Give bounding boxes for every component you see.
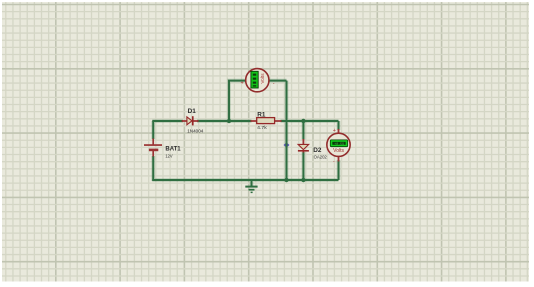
- svg-text:+: +: [241, 81, 244, 87]
- svg-text:R1: R1: [257, 112, 265, 119]
- svg-text:+: +: [333, 128, 336, 134]
- svg-text:12V: 12V: [165, 154, 173, 160]
- svg-text:1N4004: 1N4004: [187, 128, 204, 134]
- svg-text:Volts: Volts: [260, 73, 265, 84]
- svg-text:D2: D2: [313, 147, 321, 154]
- svg-text:+0.59: +0.59: [334, 143, 344, 147]
- svg-text:BAT1: BAT1: [165, 146, 180, 153]
- svg-text:4.7k: 4.7k: [257, 125, 267, 131]
- svg-text:-: -: [273, 81, 275, 87]
- svg-text:OA202: OA202: [314, 154, 327, 160]
- svg-text:-: -: [333, 159, 335, 165]
- svg-text:D1: D1: [188, 108, 196, 115]
- svg-text:Volts: Volts: [333, 148, 344, 154]
